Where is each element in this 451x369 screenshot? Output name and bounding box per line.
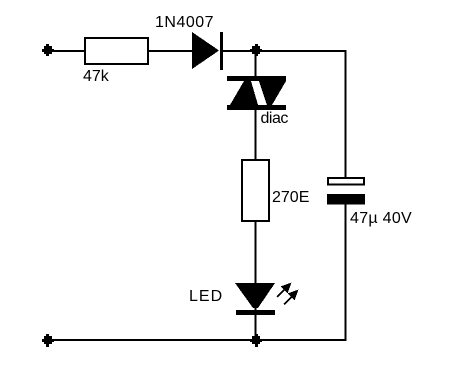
svg-text:47µ 40V: 47µ 40V — [350, 210, 412, 227]
svg-text:diac: diac — [261, 110, 289, 127]
svg-text:LED: LED — [189, 288, 223, 305]
svg-text:47k: 47k — [83, 68, 110, 85]
svg-text:1N4007: 1N4007 — [155, 14, 214, 31]
svg-text:270E: 270E — [272, 189, 309, 206]
